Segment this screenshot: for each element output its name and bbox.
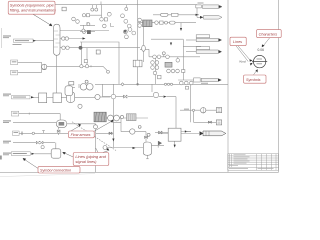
wire to connector y78	[178, 46, 194, 80]
connector row4	[196, 50, 221, 53]
bubble x104	[103, 24, 107, 28]
wire pipe y39 long	[151, 38, 183, 40]
wire valve line y142.6	[13, 142, 55, 144]
bubble stub y25	[82, 29, 85, 32]
instrument bubble x110	[107, 12, 111, 16]
valve bowtie y96.6	[124, 95, 128, 98]
control box internals	[136, 60, 140, 67]
svg-text:signal lines): signal lines)	[75, 159, 97, 164]
leader lines-box to detail b	[236, 46, 248, 62]
lollipop y53	[162, 52, 165, 55]
wire vertical main riser x138	[137, 0, 139, 60]
annotation box symbols-equipment	[8, 1, 55, 14]
bubble y31.6	[82, 30, 86, 34]
stream tag tank	[11, 152, 30, 156]
wire riser below control box	[137, 67, 139, 84]
heater HX2	[94, 112, 106, 122]
sheet left border segment	[1, 28, 3, 48]
compressor K1	[80, 84, 87, 91]
margin column divider	[227, 0, 229, 172]
wire drop to compressor x152	[151, 84, 153, 92]
wire pipe y22.6 after exchanger	[138, 22, 196, 24]
wire top main header pipe	[55, 4, 197, 6]
V2 bottom stub	[146, 155, 149, 159]
annotation leader arrowhead flow	[110, 120, 113, 123]
lollipop bubbles on top pipe	[91, 8, 94, 11]
junction diamond on header	[121, 83, 124, 86]
svg-text:Characters: Characters	[259, 32, 278, 36]
svg-text:Symbols (equipment, pipe: Symbols (equipment, pipe	[10, 4, 54, 8]
wire jog to connector y46	[183, 39, 201, 46]
annotation leader arrowhead3	[23, 158, 27, 161]
svg-text:Kind: Kind	[240, 60, 246, 64]
arrow right y96.6	[164, 96, 167, 98]
bubbles above overhead	[72, 17, 76, 21]
motor box M2	[216, 120, 221, 125]
filter F2	[53, 93, 61, 103]
wire vertical drop x143.5	[143, 27, 145, 62]
title block row lines	[228, 156, 279, 167]
wire to connector row3	[186, 39, 196, 41]
arrow feed V2	[133, 147, 136, 149]
inline box y14.8	[172, 13, 179, 16]
wire valve to box B2	[155, 132, 168, 134]
wire main long header y84.3	[95, 83, 228, 85]
wire pipe y56.8	[140, 49, 200, 58]
connector y80	[201, 78, 221, 81]
pump P1 base	[42, 64, 46, 69]
reducer circle	[107, 70, 110, 73]
filter F3	[67, 92, 75, 103]
small box x157	[158, 75, 162, 79]
wire instrument drop x155.5	[155, 58, 157, 85]
bubble on y96.6	[111, 94, 116, 99]
wire bottom utility y113.6	[19, 113, 60, 120]
subline box	[87, 14, 90, 17]
wire filter interconnect	[47, 88, 95, 98]
valve bowtie y132.5	[159, 131, 163, 134]
wire x190.5 long vertical	[190, 84, 192, 122]
leader characters to detail	[264, 38, 270, 46]
stream tag text strokes	[15, 39, 29, 42]
inlet valve circle above V2	[147, 133, 150, 136]
connector row2	[204, 16, 223, 20]
bowtie on y122 x209	[208, 121, 211, 123]
wire vertical x95.5 bottom	[95, 124, 97, 173]
connector y80 tag	[194, 78, 201, 82]
HX2 hatch	[95, 112, 106, 122]
annotation leader flow-arrows	[71, 121, 112, 131]
wire feed to filters y97.3	[34, 96, 39, 98]
title block text rows	[234, 153, 246, 156]
HX1 hatch	[143, 20, 150, 27]
wire V2 outlet	[152, 141, 165, 148]
drum D1 tag	[69, 82, 74, 85]
signal box	[84, 60, 87, 63]
annotation box lines-piping	[73, 153, 109, 166]
wire instrument stubs top	[92, 2, 126, 9]
wire feed line to column	[34, 40, 54, 42]
annotation leader symbols-equipment	[33, 14, 51, 25]
arrow filter feed	[31, 96, 34, 98]
leader lines-box to detail a	[238, 46, 250, 60]
annotation leader arrowhead-left	[62, 152, 66, 155]
hanging bubble y60	[176, 59, 180, 63]
pump P4	[201, 108, 206, 113]
bubbles on pump discharge	[80, 65, 83, 68]
big connector arrowhead	[200, 131, 204, 135]
motor box M1 marks	[218, 109, 221, 112]
wire pipe y14.8	[153, 14, 199, 16]
annotation box symbol-connection	[38, 167, 80, 173]
small box under top pipe	[62, 7, 66, 11]
dark box x87	[87, 30, 91, 34]
detail arrow left into circle	[250, 59, 253, 62]
bubbles on pipe y22.6	[155, 21, 158, 24]
bubbles right of riser	[138, 18, 142, 22]
compressor K1 top circle	[85, 80, 88, 83]
detail arrow lower-left	[250, 63, 253, 66]
small bubble under valves	[41, 146, 44, 149]
connector row3 tip	[218, 39, 221, 42]
arrow feed into column	[33, 40, 36, 42]
detail tag text top	[257, 58, 263, 61]
wire column bottoms vertical	[56, 56, 58, 94]
valve circles on column line y38.5	[62, 37, 65, 40]
annotation leader arrowhead	[49, 23, 53, 26]
dark box cluster	[124, 30, 127, 33]
valve on x95.5 line	[94, 125, 98, 129]
bowtie y133.3	[109, 132, 112, 135]
valve bowtie x58.6	[57, 130, 60, 133]
inlet bowtie above V2	[145, 136, 148, 139]
hanging circle y24	[87, 23, 90, 26]
svg-text:0.06: 0.06	[258, 48, 265, 52]
instrument column x152-158	[151, 61, 155, 65]
pump P3	[114, 115, 120, 121]
detail circle mid line	[252, 61, 267, 63]
valve circles y47.5	[62, 46, 65, 49]
connector top row1	[203, 5, 223, 9]
valve circle y147.5	[103, 146, 107, 150]
junction dot x137.6	[137, 83, 139, 85]
connector row3 tag	[196, 35, 210, 38]
instrument bubbles cluster near riser	[124, 30, 128, 34]
bubbles row y56.8	[153, 55, 157, 59]
wire x193.5 drop	[194, 111, 217, 122]
big connector stripes	[206, 131, 209, 135]
wire box B2 riser	[167, 97, 187, 145]
misc small labels	[184, 108, 189, 111]
pump P4 shaft	[202, 107, 204, 113]
sheet bottom border	[0, 171, 279, 173]
svg-text:Flow arrows: Flow arrows	[71, 133, 91, 137]
annotation box symbols-detail	[244, 75, 266, 83]
wire y110 pump row right	[180, 109, 216, 111]
signal line diagonal	[72, 122, 116, 151]
connector row3	[196, 38, 221, 41]
wire pump discharge	[47, 66, 107, 70]
wire pump corner line	[121, 118, 146, 142]
tick circle y133.3	[32, 132, 34, 134]
wire pipe y51.5 into connector	[186, 51, 196, 53]
title block outer frame	[228, 154, 279, 170]
inline pill y22.6	[170, 21, 176, 24]
dark circle y47.7	[79, 46, 83, 50]
detail arrow from characters	[262, 44, 265, 47]
annotation leader arrowhead2	[106, 148, 109, 151]
wire utility y122.4	[13, 122, 121, 123]
inline pill y14.8	[161, 13, 169, 16]
pump P1	[42, 64, 47, 69]
annotation box lines	[230, 37, 246, 45]
arrow up-left flow y122	[78, 124, 81, 127]
filter F1	[39, 93, 47, 103]
arrow down x171	[170, 43, 172, 46]
motor box M2 marks	[218, 121, 221, 124]
double valve y142.6	[36, 141, 43, 144]
wire column overhead y30.5	[60, 30, 109, 32]
arrow right y131.5	[185, 130, 188, 132]
flag pennant	[158, 141, 162, 145]
junction circle x193	[192, 109, 194, 111]
stream tag filters	[12, 96, 31, 99]
arrow down x113.4	[112, 139, 114, 142]
sheet right border	[278, 0, 280, 172]
arrow right y38.5	[83, 37, 86, 39]
control box CV	[133, 60, 142, 67]
annotation leader symbol-connection	[25, 160, 38, 169]
wire pipe y42 with corner down	[80, 42, 119, 84]
strainer block	[127, 114, 137, 121]
big connector y133.5	[203, 131, 226, 136]
arrow right y14.8	[196, 14, 199, 16]
connector row4 tip	[218, 50, 221, 53]
bubbles row y83 right	[180, 81, 184, 85]
wire instrument stub y25	[80, 22, 95, 29]
svg-text:Symbol connection: Symbol connection	[40, 169, 71, 173]
connector row4 tag	[196, 47, 210, 50]
leader symbols-box to detail	[254, 70, 257, 75]
pump pill bottom-left	[56, 120, 67, 128]
inline box y22.6	[160, 21, 164, 24]
wire pipe y96.6 cluster	[102, 84, 163, 96]
tick circles on header	[164, 83, 166, 85]
arrow tank feed	[31, 153, 34, 155]
annotation box flow-arrows	[69, 131, 95, 138]
inline box y71	[182, 70, 185, 73]
svg-text:Lines: Lines	[233, 40, 242, 44]
hatched block HB3	[165, 62, 172, 67]
detail tag text bottom	[257, 62, 263, 65]
wire column mid y38.5	[60, 38, 83, 40]
suction circle	[78, 104, 82, 108]
wire column lower y47.5	[60, 47, 140, 49]
wire signal drops x81.4 x87	[81, 42, 91, 67]
strainer stripes	[128, 114, 134, 121]
title block column lines	[230, 154, 276, 170]
small box on riser	[96, 50, 100, 54]
wire y133.5 to big connector	[158, 133, 199, 135]
small box under bubbles	[185, 87, 188, 90]
connector y80 tip	[218, 79, 221, 82]
column C1 trays	[54, 31, 61, 47]
svg-text:fitting, and instrumentation): fitting, and instrumentation)	[10, 9, 57, 13]
pill inner dark	[59, 122, 65, 126]
column C1	[54, 24, 61, 55]
wire vertical x112.8	[112, 84, 114, 147]
vessel V2	[143, 142, 151, 155]
wire to connector row1	[197, 5, 203, 18]
arrow down x181	[180, 28, 182, 31]
wire branch valve x60	[58, 128, 60, 135]
annotation leader lines-piping	[65, 148, 108, 157]
left margin tags	[3, 36, 11, 37]
tank V3	[51, 149, 61, 158]
instrument bubbles ladder	[121, 14, 125, 18]
wire compressor line	[95, 96, 110, 98]
wire tank feed y153.8	[35, 153, 52, 155]
detail instrument circle	[253, 55, 265, 67]
small bubble after pumps	[120, 115, 123, 118]
wire pump suction lines	[18, 62, 42, 72]
wire pumps row y118.6	[106, 117, 148, 119]
sheet bottom edge shadow	[0, 174, 95, 177]
stream tag feed C1	[14, 39, 34, 42]
motor box M1	[216, 108, 221, 113]
drum small	[95, 94, 100, 99]
subline circle a	[82, 14, 85, 17]
bubble pair x101	[100, 18, 104, 22]
wire V2 feed line y147.5	[103, 147, 143, 149]
connector top row1 tag	[196, 5, 202, 8]
arrow below B2	[174, 145, 176, 148]
bubbles row y71	[167, 69, 171, 73]
detail arrow from symbols	[256, 69, 258, 72]
compressor circle y95	[153, 92, 158, 97]
pump P2	[108, 115, 114, 121]
wire riser x79	[78, 84, 80, 88]
heat exchanger HX1	[143, 20, 152, 27]
pump circle y131.6	[130, 129, 135, 134]
oval pump on drop	[142, 45, 146, 51]
wire lollipop x110	[110, 23, 114, 27]
wire circle stub y31.6	[80, 31, 95, 33]
connector row2 arrowhead	[200, 16, 203, 19]
connector row1 tip	[219, 5, 222, 8]
wire tank top stub	[55, 143, 57, 149]
wire arrow stub x181	[180, 23, 182, 29]
wire bottom line y133.3	[19, 131, 113, 134]
small bubble y127	[138, 126, 141, 129]
wire subheader y12	[82, 5, 102, 18]
annotation box characters	[257, 30, 282, 38]
drum D1	[65, 86, 73, 96]
svg-text:Symbols: Symbols	[246, 78, 261, 82]
box B2	[168, 128, 181, 141]
